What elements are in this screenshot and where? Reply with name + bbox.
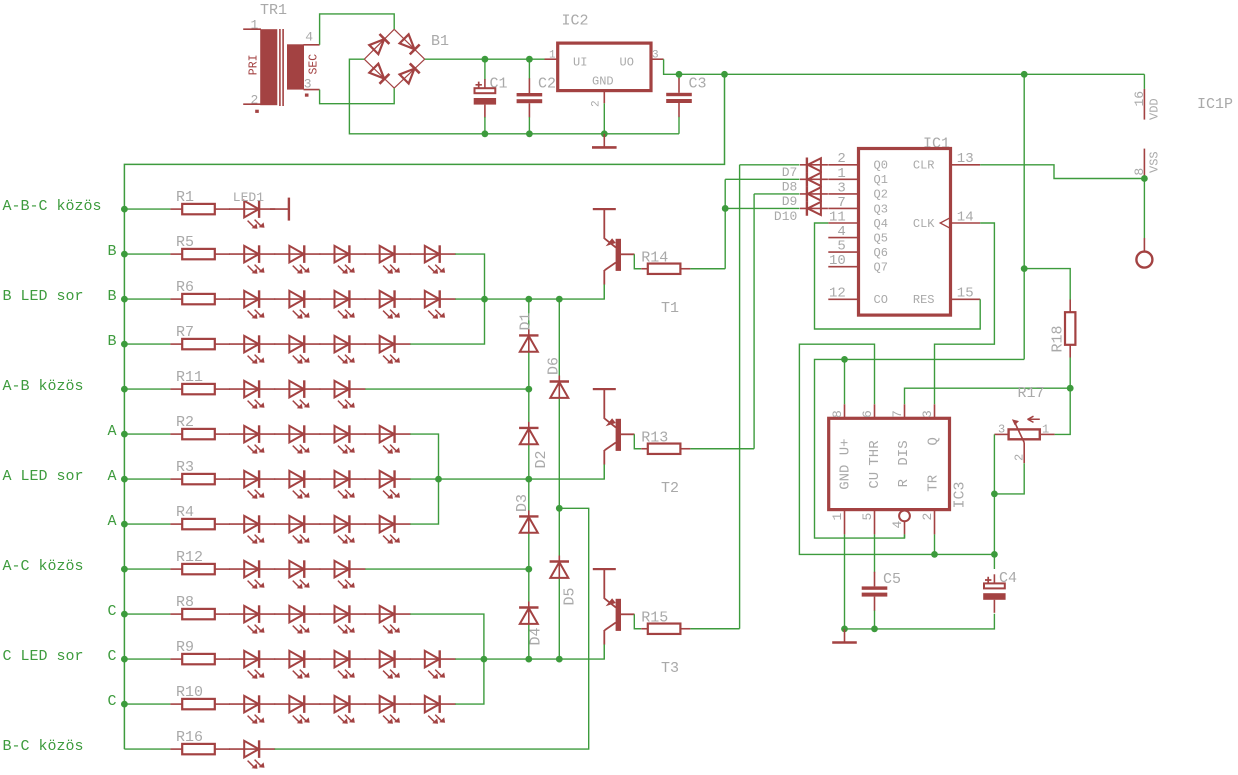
LED row3 #1 xyxy=(229,335,275,363)
LED row5 #4 xyxy=(365,425,411,453)
svg-text:VSS: VSS xyxy=(1148,151,1162,173)
wire row 3 to resistor R7 xyxy=(124,343,170,345)
junction xyxy=(481,656,488,663)
junction xyxy=(525,566,532,573)
svg-text:RES: RES xyxy=(913,293,935,307)
resistor R11 xyxy=(170,369,230,394)
capacitor C1 xyxy=(474,59,508,134)
LED row11 #2 xyxy=(274,695,320,723)
resistor R15 xyxy=(641,609,690,634)
junction xyxy=(525,296,532,303)
LED row3 #4 xyxy=(365,335,411,363)
diode D9 xyxy=(782,187,828,210)
capacitor C3 xyxy=(666,74,706,134)
voltage regulator IC2 xyxy=(545,13,664,107)
LED row2 #4 xyxy=(365,290,411,318)
resistor R9 xyxy=(170,639,230,664)
diode D2 xyxy=(519,422,550,469)
svg-text:Q0: Q0 xyxy=(874,159,888,173)
LED row10 #1 xyxy=(229,650,275,678)
LED row2 #1 xyxy=(229,290,275,318)
terminator bar LED1 row xyxy=(288,198,290,221)
svg-text:6: 6 xyxy=(860,410,875,418)
diode D7 xyxy=(782,158,828,181)
svg-text:TR1: TR1 xyxy=(260,2,287,19)
LED row5 #1 xyxy=(229,425,275,453)
svg-text:Q3: Q3 xyxy=(874,202,888,216)
svg-text:IC2: IC2 xyxy=(562,13,589,30)
wire R pin4 net xyxy=(904,534,906,538)
transformer TR1 xyxy=(243,2,320,113)
junction xyxy=(121,386,128,393)
LED row2 #3 xyxy=(320,290,366,318)
diode D1 xyxy=(518,312,539,352)
wire VDD to R18 branch xyxy=(1023,74,1025,359)
svg-text:DIS: DIS xyxy=(896,440,912,465)
svg-text:D10: D10 xyxy=(774,209,797,224)
LED row2 #5 xyxy=(410,290,456,318)
wire row4 right xyxy=(365,388,529,390)
junction xyxy=(871,626,878,633)
wire row 8 to resistor R12 xyxy=(124,568,170,570)
junction xyxy=(121,476,128,483)
svg-text:A-B közös: A-B közös xyxy=(3,378,84,395)
wire R18 bottom xyxy=(1069,358,1071,389)
LED row1 #5 xyxy=(410,245,456,273)
wire row1 right xyxy=(455,254,484,299)
wire T2 emitter xyxy=(603,464,605,479)
resistor R3 xyxy=(170,459,230,484)
resistor R4 xyxy=(170,504,230,529)
LED row6 #4 xyxy=(365,470,411,498)
junction xyxy=(482,130,489,137)
wire diode chain B xyxy=(558,299,560,659)
junction xyxy=(676,71,683,78)
wire D9 row xyxy=(754,193,799,195)
junction xyxy=(601,130,608,137)
junction xyxy=(121,566,128,573)
LED row9 #4 xyxy=(365,605,411,633)
resistor R16 xyxy=(170,729,230,754)
LED row11 #1 xyxy=(229,695,275,723)
wire row 2 to resistor R6 xyxy=(124,298,170,300)
junction xyxy=(721,71,728,78)
junction xyxy=(556,505,563,512)
diode D8 xyxy=(782,172,828,195)
svg-text:A: A xyxy=(108,468,117,485)
diode D5 xyxy=(550,556,579,606)
junction xyxy=(931,551,938,558)
wire row3 right xyxy=(410,299,484,344)
wire DIS net xyxy=(905,388,1071,404)
wire row 6 to resistor R3 xyxy=(124,478,170,480)
LED row7 #1 xyxy=(229,515,275,543)
svg-text:10: 10 xyxy=(829,253,846,269)
svg-text:U+: U+ xyxy=(837,438,853,455)
wire VSS to pad xyxy=(1143,179,1145,239)
LED row8 #1 xyxy=(229,560,275,588)
junction xyxy=(841,356,848,363)
power pin VSS IC1P xyxy=(1132,149,1162,179)
svg-text:Q7: Q7 xyxy=(874,260,888,274)
wire row5 right xyxy=(410,434,438,479)
wire T1 base to R14 xyxy=(634,254,641,268)
LED row10 #5 xyxy=(410,650,456,678)
LED row9 #2 xyxy=(274,605,320,633)
svg-text:12: 12 xyxy=(829,286,846,302)
wire R13 to IC1 xyxy=(690,448,754,450)
svg-text:CU: CU xyxy=(867,472,883,489)
junction xyxy=(1021,265,1028,272)
junction xyxy=(121,431,128,438)
junction xyxy=(525,476,532,483)
svg-text:IC1P: IC1P xyxy=(1197,96,1233,113)
wire V+ to pin8 xyxy=(844,359,846,404)
svg-text:D3: D3 xyxy=(514,494,531,512)
wire row2 right to T1 xyxy=(455,285,604,300)
svg-text:B LED sor: B LED sor xyxy=(3,288,84,305)
wire IC1 CLR to VSS xyxy=(980,165,1144,179)
junction xyxy=(841,626,848,633)
power pin VDD IC1P xyxy=(1132,74,1233,120)
svg-text:4: 4 xyxy=(890,521,905,529)
svg-text:D5: D5 xyxy=(562,587,579,605)
svg-text:PRI: PRI xyxy=(247,54,260,75)
LED row9 #3 xyxy=(320,605,366,633)
LED row7 #2 xyxy=(274,515,320,543)
wire row11 right xyxy=(455,659,484,704)
wire Q1/Q3 to R14 xyxy=(724,179,726,268)
junction xyxy=(722,205,729,212)
wire bridge right to IC2 input xyxy=(425,58,545,60)
transistor T2 xyxy=(593,388,679,497)
svg-text:Q2: Q2 xyxy=(874,188,888,202)
LED row6 #3 xyxy=(320,470,366,498)
LED row12 #1 xyxy=(229,740,275,768)
wire row 7 to resistor R4 xyxy=(124,523,170,525)
LED row3 #2 xyxy=(274,335,320,363)
ground xyxy=(592,134,617,148)
svg-text:R: R xyxy=(896,478,912,487)
svg-text:C2: C2 xyxy=(538,76,556,93)
svg-text:3: 3 xyxy=(920,410,935,418)
svg-text:D2: D2 xyxy=(533,450,550,468)
svg-text:T1: T1 xyxy=(661,300,679,317)
svg-text:A LED sor: A LED sor xyxy=(3,468,84,485)
svg-text:UO: UO xyxy=(620,55,634,69)
svg-text:CO: CO xyxy=(874,293,888,307)
wire row 0 to resistor R1 xyxy=(124,208,170,210)
wire row10 right to T3 xyxy=(455,645,604,660)
wire T3 base to R15 xyxy=(634,614,641,628)
wire R17 pin1 to DIS xyxy=(1055,388,1071,434)
wire R17 wiper xyxy=(994,463,1024,494)
wire TR1 pin4 to bridge top xyxy=(320,14,395,45)
svg-text:B-C közös: B-C közös xyxy=(3,738,84,755)
LED row10 #4 xyxy=(365,650,411,678)
junction xyxy=(121,521,128,528)
wire row12 right to B-C diode chain xyxy=(275,508,589,749)
svg-text:C: C xyxy=(108,693,117,710)
junction xyxy=(481,296,488,303)
bridge rectifier B1 xyxy=(364,29,449,88)
wire IC1 RES to Q4 xyxy=(815,223,981,329)
LED1 xyxy=(229,200,275,228)
diode D3 xyxy=(514,494,539,533)
capacitor C5 xyxy=(862,534,901,629)
wire row7 right xyxy=(410,479,438,524)
junction xyxy=(121,701,128,708)
resistor R2 xyxy=(170,414,230,439)
junction xyxy=(482,56,489,63)
transistor T3 xyxy=(593,568,679,677)
resistor R13 xyxy=(641,429,690,454)
svg-text:Q4: Q4 xyxy=(874,217,888,231)
svg-text:D7: D7 xyxy=(782,165,798,180)
svg-text:Q5: Q5 xyxy=(874,231,888,245)
wire bridge left to ground rail xyxy=(349,59,679,134)
LED row3 #3 xyxy=(320,335,366,363)
wire IC2 output to VDD rail xyxy=(664,59,1145,74)
counter IC1 xyxy=(828,135,980,315)
potentiometer R17 xyxy=(994,385,1054,463)
wire T2 base to R13 xyxy=(634,434,641,448)
LED row7 #4 xyxy=(365,515,411,543)
svg-text:A-B-C közös: A-B-C közös xyxy=(3,198,102,215)
resistor R5 xyxy=(170,234,230,259)
svg-text:R17: R17 xyxy=(1018,385,1045,402)
junction xyxy=(121,251,128,258)
svg-text:D1: D1 xyxy=(518,312,535,330)
junction xyxy=(991,551,998,558)
svg-text:15: 15 xyxy=(957,286,974,302)
svg-text:A: A xyxy=(108,423,117,440)
svg-text:SEC: SEC xyxy=(307,54,320,75)
svg-text:Q1: Q1 xyxy=(874,173,888,187)
wire row 5 to resistor R2 xyxy=(124,433,170,435)
svg-text:14: 14 xyxy=(957,209,974,225)
svg-text:CLR: CLR xyxy=(913,159,935,173)
wire row 9 to resistor R8 xyxy=(124,613,170,615)
resistor R6 xyxy=(170,279,230,304)
junction xyxy=(121,656,128,663)
junction xyxy=(556,656,563,663)
wire row8 right xyxy=(365,568,529,570)
LED row10 #2 xyxy=(274,650,320,678)
svg-text:A: A xyxy=(108,513,117,530)
wire R17 pin3 down xyxy=(993,434,995,554)
LED row2 #2 xyxy=(274,290,320,318)
svg-text:UI: UI xyxy=(573,55,587,69)
resistor R1 xyxy=(170,189,230,214)
wire 555 ground rail xyxy=(845,614,995,629)
resistor R7 xyxy=(170,324,230,349)
svg-text:T3: T3 xyxy=(661,660,679,677)
diode D4 xyxy=(519,602,544,646)
junction xyxy=(556,296,563,303)
wire R15 to IC1 xyxy=(690,628,739,630)
junction xyxy=(991,491,998,498)
wire VDD bus xyxy=(124,74,724,749)
svg-text:D6: D6 xyxy=(546,357,563,375)
svg-text:THR: THR xyxy=(867,440,883,466)
svg-text:GND: GND xyxy=(592,74,614,88)
wire Q0 to R15 xyxy=(739,165,741,629)
wire row9 right xyxy=(410,614,484,659)
wire D7 row xyxy=(740,164,800,166)
svg-text:8: 8 xyxy=(830,410,845,418)
LED row11 #5 xyxy=(410,695,456,723)
svg-text:2: 2 xyxy=(591,100,603,107)
wire IC2 GND to rail xyxy=(603,103,605,134)
wire row 10 to resistor R9 xyxy=(124,658,170,660)
wire TR1 pin3 to bridge bottom xyxy=(320,88,395,104)
svg-text:D8: D8 xyxy=(782,180,798,195)
ground xyxy=(832,629,857,643)
svg-text:A-C közös: A-C közös xyxy=(3,558,84,575)
wire T1 emitter xyxy=(603,284,605,299)
wire diode chain A xyxy=(528,299,530,659)
transistor T1 xyxy=(593,208,679,317)
svg-text:C: C xyxy=(108,648,117,665)
svg-text:GND: GND xyxy=(837,465,853,490)
svg-text:B: B xyxy=(108,288,117,305)
junction xyxy=(526,56,533,63)
junction xyxy=(1141,175,1148,182)
svg-text:C5: C5 xyxy=(883,571,901,588)
junction xyxy=(1021,71,1028,78)
junction xyxy=(1067,385,1074,392)
wire to R18 xyxy=(1024,269,1070,300)
svg-text:D9: D9 xyxy=(782,194,798,209)
resistor R14 xyxy=(641,249,690,274)
svg-text:IC3: IC3 xyxy=(952,481,969,508)
LED row4 #2 xyxy=(274,380,320,408)
svg-text:C LED sor: C LED sor xyxy=(3,648,84,665)
diode D6 xyxy=(546,357,570,399)
wire row 1 to resistor R5 xyxy=(124,253,170,255)
svg-text:7: 7 xyxy=(890,410,905,418)
wire R14 to IC1 xyxy=(690,268,725,270)
junction xyxy=(525,656,532,663)
svg-text:VDD: VDD xyxy=(1148,98,1162,120)
svg-text:D4: D4 xyxy=(528,627,545,645)
junction xyxy=(121,206,128,213)
LED row1 #3 xyxy=(320,245,366,273)
junction xyxy=(525,386,532,393)
junction xyxy=(121,341,128,348)
LED row8 #2 xyxy=(274,560,320,588)
pad connector xyxy=(1136,238,1152,268)
LED row1 #4 xyxy=(365,245,411,273)
resistor R8 xyxy=(170,594,230,619)
wire LED1 to terminator xyxy=(270,208,288,210)
capacitor C2 xyxy=(517,59,556,134)
junction xyxy=(526,130,533,137)
svg-text:B: B xyxy=(108,243,117,260)
diode D10 xyxy=(774,201,828,224)
LED row5 #3 xyxy=(320,425,366,453)
capacitor C4 xyxy=(983,554,1017,612)
wire row 11 to resistor R10 xyxy=(124,703,170,705)
wire THR net xyxy=(799,344,994,554)
LED row11 #4 xyxy=(365,695,411,723)
svg-text:Q: Q xyxy=(926,437,942,445)
junction xyxy=(121,296,128,303)
LED row7 #3 xyxy=(320,515,366,543)
LED row6 #1 xyxy=(229,470,275,498)
svg-text:4: 4 xyxy=(305,30,313,45)
wire row6 right to T2 xyxy=(410,465,604,480)
wire D8 row xyxy=(725,178,799,180)
wire row 12 to resistor R16 xyxy=(124,748,170,750)
wire row 4 to resistor R11 xyxy=(124,388,170,390)
svg-text:C: C xyxy=(108,603,117,620)
resistor R10 xyxy=(170,684,230,709)
wire D10 row xyxy=(725,207,799,209)
wire V+ rail 555 xyxy=(815,359,1025,538)
junction xyxy=(121,611,128,618)
LED row10 #3 xyxy=(320,650,366,678)
resistor R12 xyxy=(170,549,230,574)
wire Q2 to R13 xyxy=(753,194,755,449)
svg-text:2: 2 xyxy=(920,513,935,521)
resistor R18 xyxy=(1050,300,1076,358)
wire T3 emitter xyxy=(603,644,605,659)
timer IC3 xyxy=(829,404,969,534)
LED row4 #3 xyxy=(320,380,366,408)
wire IC1 CLK to IC3 Q xyxy=(935,223,995,404)
svg-text:C3: C3 xyxy=(689,76,707,93)
junction xyxy=(435,476,442,483)
LED row8 #3 xyxy=(320,560,366,588)
svg-text:TR: TR xyxy=(926,474,942,491)
svg-text:T2: T2 xyxy=(661,480,679,497)
svg-text:Q6: Q6 xyxy=(874,246,888,260)
svg-text:B: B xyxy=(108,333,117,350)
svg-text:1: 1 xyxy=(830,513,845,521)
LED row11 #3 xyxy=(320,695,366,723)
svg-text:1: 1 xyxy=(251,17,259,32)
LED row6 #2 xyxy=(274,470,320,498)
svg-text:CLK: CLK xyxy=(913,217,935,231)
LED row4 #1 xyxy=(229,380,275,408)
svg-text:5: 5 xyxy=(860,513,875,521)
svg-text:LED1: LED1 xyxy=(233,190,264,205)
LED row1 #1 xyxy=(229,245,275,273)
LED row5 #2 xyxy=(274,425,320,453)
svg-text:13: 13 xyxy=(957,151,974,167)
wire GND pin1 net xyxy=(844,534,846,629)
svg-text:B1: B1 xyxy=(431,33,449,50)
svg-text:2: 2 xyxy=(251,92,259,107)
LED row1 #2 xyxy=(274,245,320,273)
LED row9 #1 xyxy=(229,605,275,633)
wire TR pin2 net xyxy=(934,534,936,554)
